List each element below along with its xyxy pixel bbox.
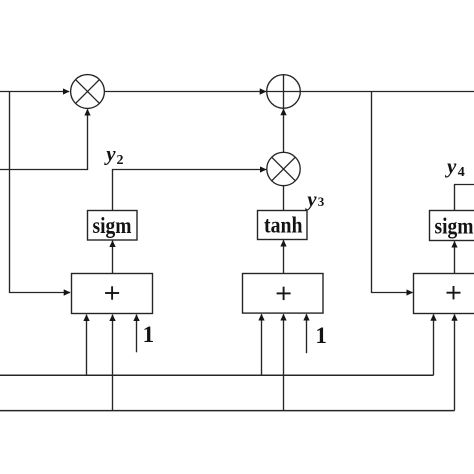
svg-text:tanh: tanh (264, 213, 303, 238)
svg-text:sigm: sigm (435, 213, 474, 238)
wire: bias 1 arrow into left adder box (136, 315, 138, 353)
wire: bias 1 arrow into middle adder box (306, 314, 308, 353)
adder circle (267, 75, 301, 109)
wire: tanh up to middle multiplier (283, 186, 285, 211)
wire y2: sigm output up and right to middle multiplier (113, 170, 267, 211)
adder box left with plus (72, 274, 153, 314)
box sigm left (88, 211, 138, 241)
wire: top-left input to left multiplier (0, 91, 69, 93)
wire: right adder box up to right sigm (454, 241, 456, 273)
adder box middle with plus (243, 274, 324, 314)
wire: rail1 end turns up into right adder box (433, 314, 435, 375)
svg-text:4: 4 (458, 165, 465, 180)
box sigm right (cut off at image edge) (430, 211, 474, 241)
wire: rail1 branch up into left adder box (86, 315, 88, 376)
wire: rail2 branch up into middle adder box (283, 314, 285, 410)
wire: branch down from input to left adder box (10, 92, 71, 293)
label y4 (444, 154, 465, 180)
label y3 (304, 187, 324, 211)
svg-text:y: y (103, 142, 116, 166)
svg-text:y: y (444, 154, 457, 178)
svg-text:y: y (304, 187, 317, 211)
multiplier circle left (71, 75, 105, 109)
wire: left multiplier output to adder circle (104, 91, 266, 93)
wire: rail2 end turns up into right adder box (454, 314, 456, 410)
box tanh (258, 211, 308, 240)
svg-text:1: 1 (143, 322, 155, 347)
multiplier circle middle (267, 152, 300, 185)
svg-text:2: 2 (117, 153, 124, 168)
svg-text:3: 3 (318, 194, 325, 209)
wire: rail 2 horizontal bus (0, 410, 455, 412)
wire: adder circle output to right edge (300, 91, 474, 93)
label y2 (103, 142, 123, 168)
wire: rail 1 horizontal bus (0, 374, 434, 376)
wire: rail2 branch up into left adder box (112, 315, 114, 411)
wire y4: right sigm output up and right to edge (455, 185, 474, 211)
adder box right with plus (cut off at image edge) (414, 274, 474, 314)
wire: left edge input to left multiplier bottom (0, 109, 88, 169)
svg-text:sigm: sigm (93, 213, 132, 238)
wire: left adder box up to sigm (112, 241, 114, 274)
wire: rail1 branch up into middle adder box (261, 314, 263, 375)
wire: middle adder box up to tanh (283, 240, 285, 273)
wire: middle multiplier up to adder circle (283, 109, 285, 152)
svg-text:1: 1 (315, 323, 327, 348)
wire: right branch down to right adder box (372, 92, 413, 293)
